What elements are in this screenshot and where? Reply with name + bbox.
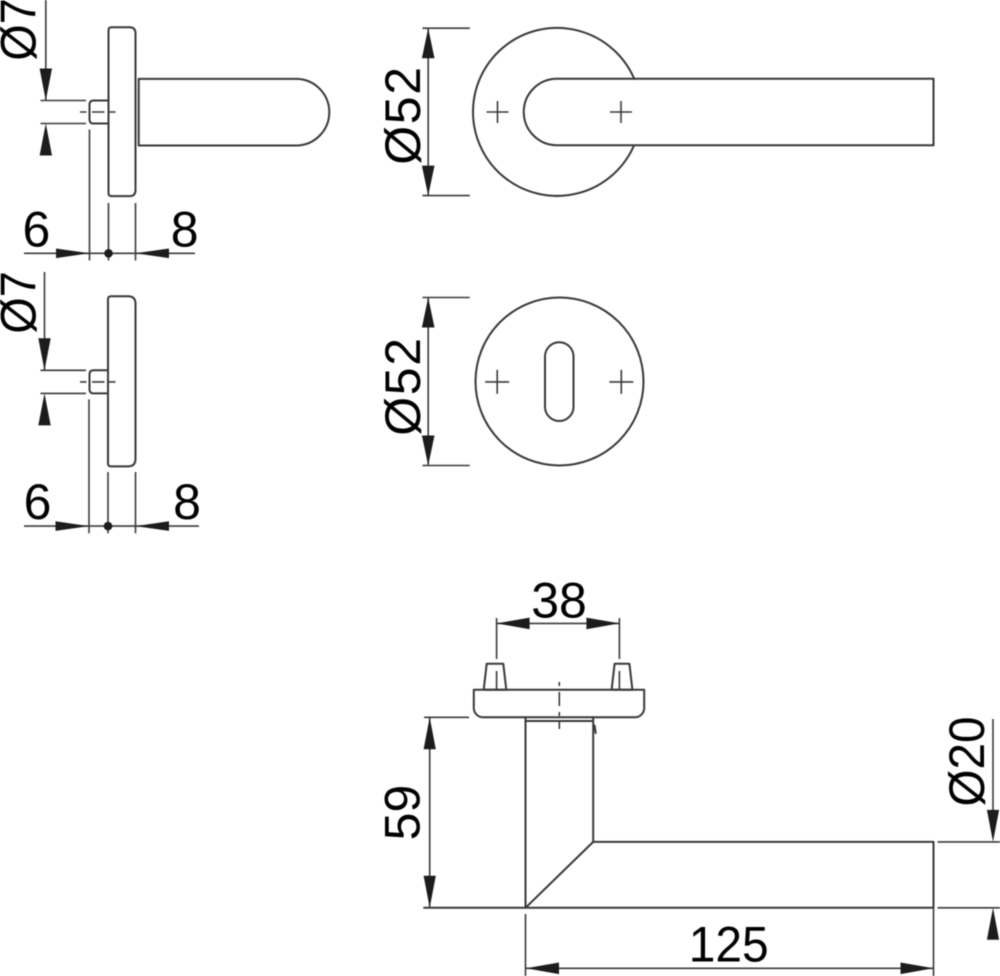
svg-text:Ø7: Ø7 (0, 0, 47, 61)
svg-text:Ø52: Ø52 (375, 336, 431, 436)
svg-text:Ø52: Ø52 (375, 65, 431, 165)
svg-text:125: 125 (689, 917, 769, 973)
svg-text:6: 6 (22, 202, 50, 258)
svg-text:Ø7: Ø7 (0, 271, 47, 334)
svg-text:59: 59 (375, 785, 431, 841)
svg-text:Ø20: Ø20 (939, 717, 995, 807)
svg-text:6: 6 (24, 474, 52, 530)
svg-text:38: 38 (531, 573, 587, 629)
svg-text:8: 8 (173, 474, 201, 530)
svg-text:8: 8 (171, 202, 199, 258)
